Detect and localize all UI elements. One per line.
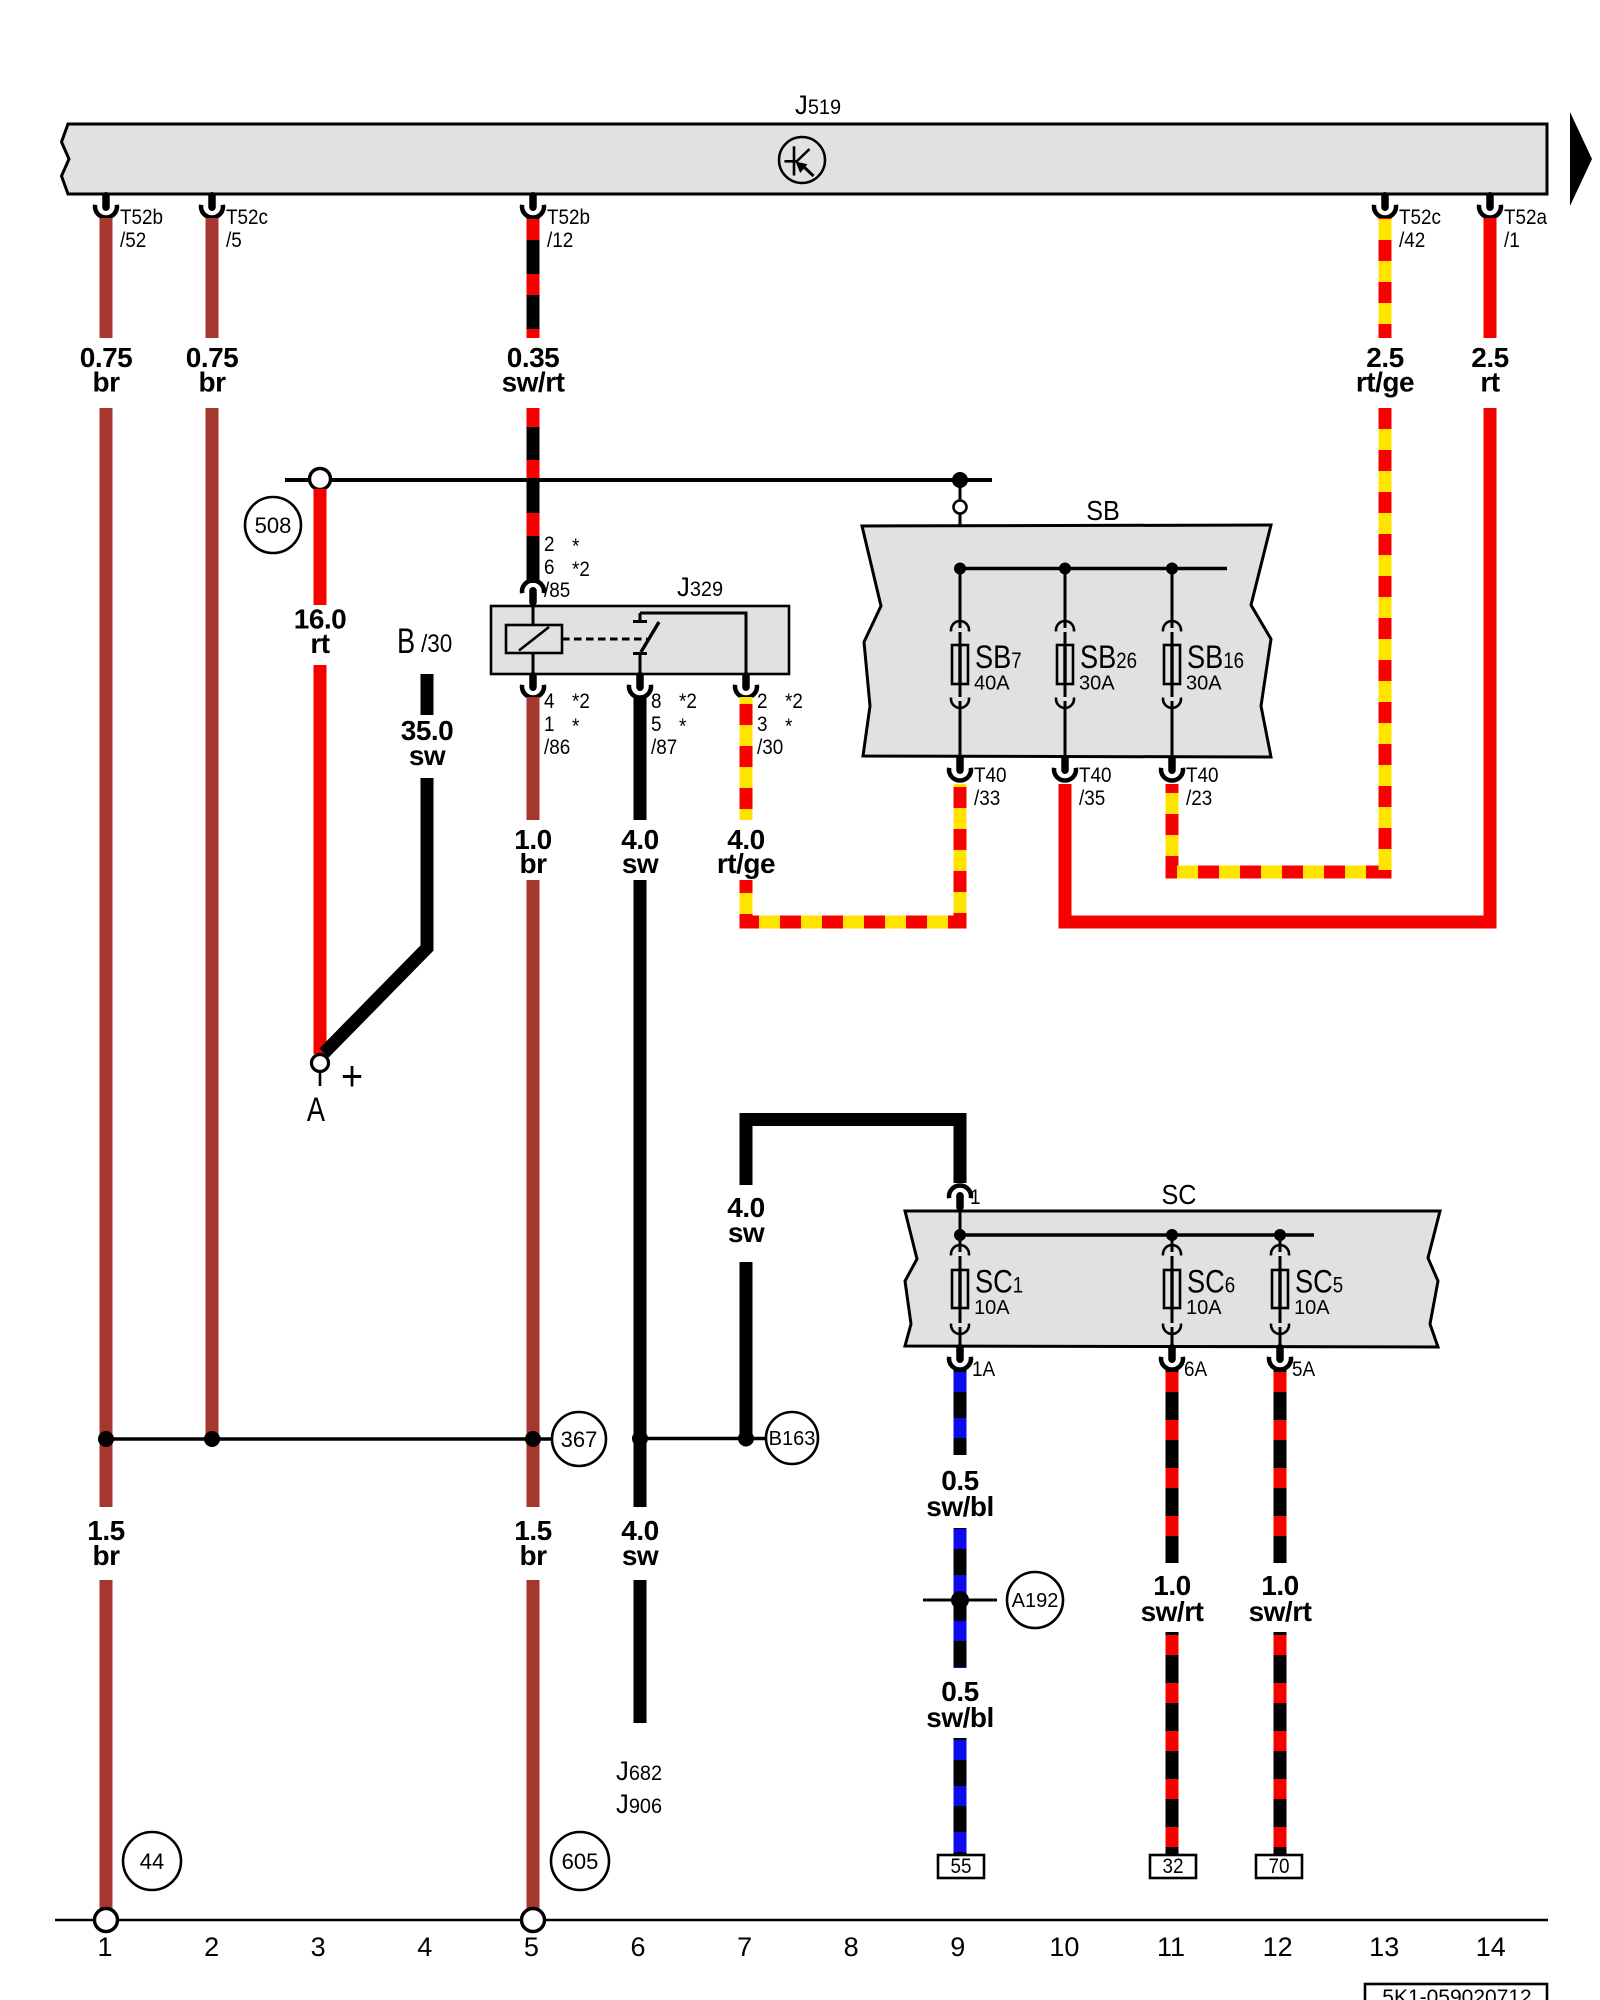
label 16.0 rt <box>294 604 347 660</box>
connector 5A under SC5 <box>1269 1344 1316 1381</box>
svg-text:8: 8 <box>651 690 662 713</box>
continuation arrow right of J519 <box>1570 112 1592 206</box>
svg-text:sw: sw <box>622 848 659 879</box>
wire 2.5 rt from T52a/1 (upper segment) <box>1484 218 1497 338</box>
junction A192 cross line <box>923 1599 997 1602</box>
svg-text:T52b: T52b <box>120 206 163 229</box>
wire 0.35 sw/rt lower segment to relay pin /85 <box>527 408 540 583</box>
svg-text:sw: sw <box>622 1540 659 1571</box>
svg-text:SB: SB <box>1086 495 1120 527</box>
svg-text:br: br <box>93 1540 121 1571</box>
junction dot SB bus at SB7 <box>954 563 966 575</box>
label 0.5 sw/bl (lower) <box>926 1676 994 1733</box>
svg-text:7: 7 <box>737 1932 752 1962</box>
label 2.5 rt <box>1471 342 1508 398</box>
relay coil <box>506 606 562 674</box>
label 1.0 sw/rt at x=1172 <box>1141 1570 1204 1627</box>
connector terminal T52c/42 on J519 <box>1374 192 1441 252</box>
svg-text:70: 70 <box>1268 1855 1289 1878</box>
svg-text:1: 1 <box>970 1186 981 1209</box>
svg-text:13: 13 <box>1369 1932 1399 1962</box>
svg-text:T40: T40 <box>974 764 1007 787</box>
svg-text:T52c: T52c <box>226 206 268 229</box>
connector 6A under SC6 <box>1161 1344 1208 1381</box>
junction dot above SB fuse box <box>952 472 968 488</box>
wire 4.0 sw U-link from junction B163 up and over to SC terminal 1 (upper part) <box>746 1120 960 1186</box>
fuse SC1 10A <box>951 1235 1023 1346</box>
svg-text:11: 11 <box>1157 1932 1185 1962</box>
contact box 70 <box>1256 1855 1302 1878</box>
svg-text:1: 1 <box>97 1932 112 1962</box>
fuse SB16 30A <box>1163 569 1244 758</box>
wire 0.5 sw/bl middle segment through A192 <box>954 1528 967 1668</box>
wire 1.0 sw/rt lower segment to contact 70 <box>1274 1632 1287 1855</box>
wire 4.0 rt/ge from relay /30 (upper segment) <box>740 697 753 820</box>
node open circle at start of 16.0 rt wire <box>310 469 331 490</box>
pin labels 4 *2 1 * /86 <box>544 690 590 759</box>
relay pin /86 connector <box>522 672 544 698</box>
svg-text:rt/ge: rt/ge <box>1356 367 1414 398</box>
wire 0.35 sw/rt from T52b/12 (upper segment) <box>527 218 540 338</box>
svg-text:2: 2 <box>757 690 768 713</box>
connection circle 44 <box>123 1832 181 1890</box>
svg-text:/12: /12 <box>547 229 573 252</box>
pin labels 2 * 6 *2 /85 <box>544 533 590 602</box>
wire 1.5 br lower segment to ground <box>527 1580 540 1912</box>
junction dot A192 <box>951 1591 969 1609</box>
small open connection circle above SB <box>954 501 967 514</box>
svg-text:367: 367 <box>561 1427 598 1452</box>
svg-text:30A: 30A <box>1186 673 1222 695</box>
svg-text:14: 14 <box>1476 1932 1506 1962</box>
svg-text:10A: 10A <box>1294 1297 1330 1319</box>
relay internal wire to pin /30 <box>640 613 746 674</box>
svg-text:6: 6 <box>630 1932 645 1962</box>
svg-text:32: 32 <box>1162 1855 1183 1878</box>
wire 1.0 br from relay /86 (upper segment) <box>527 697 540 820</box>
svg-text:br: br <box>520 848 548 879</box>
SB internal bus line <box>960 567 1227 570</box>
svg-text:/33: /33 <box>974 787 1000 810</box>
svg-text:10: 10 <box>1049 1932 1079 1962</box>
relay actuation dashed line <box>562 638 647 641</box>
svg-text:40A: 40A <box>974 673 1010 695</box>
svg-text:/30: /30 <box>757 736 783 759</box>
wire 0.5 sw/bl lower segment to contact 55 <box>954 1738 967 1855</box>
svg-text:12: 12 <box>1263 1932 1293 1962</box>
svg-text:*2: *2 <box>572 558 590 581</box>
svg-text:/5: /5 <box>226 229 242 252</box>
svg-text:T40: T40 <box>1186 764 1219 787</box>
svg-text:10A: 10A <box>1186 1297 1222 1319</box>
label J682 J906 <box>616 1755 662 1819</box>
label 35.0 sw <box>401 715 454 771</box>
terminal A (battery) with + sign <box>307 1053 363 1129</box>
relay J329 (terminal 15 voltage supply relay) box <box>491 571 789 674</box>
svg-text:*2: *2 <box>785 690 803 713</box>
connector T40/33 under SB7 <box>949 755 1007 810</box>
wire 0.75 br lower segment ending at junction line <box>206 408 219 1439</box>
junction line for connection B163 <box>640 1437 766 1440</box>
label 1.0 br <box>514 824 551 879</box>
label 1.5 br (under relay column) <box>514 1515 551 1571</box>
connection circle A192 <box>1007 1572 1063 1628</box>
connection circle 508 <box>245 497 301 553</box>
label 2.5 rt/ge <box>1356 342 1414 398</box>
junction line for connection 367 <box>106 1437 552 1440</box>
svg-text:5: 5 <box>524 1932 539 1962</box>
fuse SC5 10A <box>1271 1235 1343 1346</box>
svg-text:B163: B163 <box>769 1428 816 1450</box>
svg-text:5: 5 <box>651 713 662 736</box>
ground point circle at wire5 <box>522 1909 545 1932</box>
svg-text:*2: *2 <box>679 690 697 713</box>
svg-text:3: 3 <box>311 1932 326 1962</box>
label 0.75 br (second) <box>186 342 239 398</box>
svg-text:T40: T40 <box>1079 764 1112 787</box>
svg-text:T52b: T52b <box>547 206 590 229</box>
label 0.5 sw/bl (upper) <box>926 1465 994 1522</box>
svg-text:508: 508 <box>255 513 292 538</box>
svg-text:2: 2 <box>204 1932 219 1962</box>
contact box 55 <box>938 1855 984 1878</box>
svg-text:605: 605 <box>562 1849 599 1874</box>
track numbers 1-14 <box>97 1932 1505 1962</box>
junction dot SB bus at SB26 <box>1059 563 1071 575</box>
wire 2.5 rt lower segment to SB26 T40/35 <box>1065 408 1490 922</box>
junction dot SC bus at SC1 <box>954 1229 966 1241</box>
junction dot SB bus at SB16 <box>1166 563 1178 575</box>
wire 4.0 sw U-link lower segment to B163 junction <box>740 1262 753 1438</box>
svg-text:+: + <box>341 1053 363 1099</box>
relay switch contact <box>633 613 659 674</box>
svg-text:30A: 30A <box>1079 673 1115 695</box>
ground rail line <box>55 1919 1548 1922</box>
fuse box SC <box>905 1179 1440 1347</box>
svg-text:10A: 10A <box>974 1297 1010 1319</box>
svg-text:T52c: T52c <box>1399 206 1441 229</box>
svg-text:4: 4 <box>417 1932 432 1962</box>
svg-text:A192: A192 <box>1012 1590 1059 1612</box>
svg-text:6A: 6A <box>1184 1358 1208 1381</box>
svg-text:3: 3 <box>757 713 768 736</box>
diagnostic K-point symbol inside J519 <box>779 137 825 183</box>
svg-text:sw: sw <box>728 1217 765 1248</box>
relay pin /30 connector <box>735 672 757 698</box>
SC internal feed line from connector 1 <box>959 1206 962 1235</box>
fuse box SB <box>862 495 1271 757</box>
connector terminal T52c/5 on J519 <box>201 192 268 252</box>
label 0.75 br <box>80 342 133 398</box>
svg-text:4: 4 <box>544 690 555 713</box>
connection circle B163 <box>766 1412 818 1464</box>
label 4.0 sw (U-link) <box>727 1192 765 1248</box>
control unit J519 (onboard supply control unit) bus bar <box>62 89 1548 194</box>
wire 4.0 sw middle segment through junction B163 line <box>634 880 647 1507</box>
svg-text:*: * <box>785 715 793 738</box>
connector T40/23 under SB16 <box>1161 755 1219 810</box>
connection circle 605 <box>551 1832 609 1890</box>
svg-text:/23: /23 <box>1186 787 1212 810</box>
label 4.0 rt/ge <box>717 824 775 879</box>
junction dot at wire6 <box>632 1431 648 1447</box>
svg-text:/86: /86 <box>544 736 570 759</box>
fuse SB7 40A <box>951 569 1022 758</box>
label 0.35 sw/rt <box>502 342 565 398</box>
junction dot at wire2 end <box>204 1431 220 1447</box>
connection circle 367 <box>552 1412 606 1466</box>
wire 1.5 br lower segment to ground <box>100 1580 113 1912</box>
label 4.0 sw <box>621 824 659 879</box>
svg-text:SC: SC <box>1161 1179 1196 1211</box>
wire 2.5 rt/ge from T52c/42 (upper segment) <box>1379 218 1392 338</box>
diagram number box 5K1-059020712 <box>1365 1984 1547 2000</box>
relay pin /87 connector <box>629 672 651 698</box>
svg-text:/42: /42 <box>1399 229 1425 252</box>
connector terminal T52b/52 on J519 <box>95 192 163 252</box>
svg-text:8: 8 <box>844 1932 859 1962</box>
pin labels 2 *2 3 * /30 <box>757 690 803 759</box>
junction dot at U-link wire <box>738 1431 754 1447</box>
svg-text:br: br <box>93 367 121 398</box>
connector T40/35 under SB26 <box>1054 755 1112 810</box>
svg-text:6: 6 <box>544 556 555 579</box>
junction dot SC bus at SC5 <box>1274 1229 1286 1241</box>
svg-text:br: br <box>520 1540 548 1571</box>
svg-text:5K1-059020712: 5K1-059020712 <box>1382 1986 1531 2000</box>
svg-text:*2: *2 <box>572 690 590 713</box>
svg-text:9: 9 <box>950 1932 965 1962</box>
wire 1.0 sw/rt from SC fuse (upper segment) at x=1172 <box>1166 1370 1179 1563</box>
svg-text:/87: /87 <box>651 736 677 759</box>
wire 0.75/1.5 br middle segment to junction 367 line <box>100 408 113 1507</box>
svg-text:sw/rt: sw/rt <box>1141 1596 1204 1627</box>
wire: distribution node line (connection 508 to SB) <box>285 478 992 482</box>
wire 1.0 sw/rt lower segment to contact 32 <box>1166 1632 1179 1855</box>
label 4.0 sw (lower) <box>621 1515 659 1571</box>
svg-text:A: A <box>307 1090 326 1129</box>
wire 16.0 rt upper segment from node circle <box>314 489 327 605</box>
svg-text:br: br <box>199 367 227 398</box>
svg-text:rt: rt <box>310 628 329 659</box>
connector 1A under SC1 <box>949 1344 996 1381</box>
label B /30 (battery positive) <box>397 622 452 661</box>
svg-text:rt: rt <box>1480 367 1499 398</box>
connector terminal T52b/12 on J519 <box>522 192 590 252</box>
junction dot SC bus at SC6 <box>1166 1229 1178 1241</box>
label 1.0 sw/rt at x=1280 <box>1249 1570 1312 1627</box>
svg-text:sw/rt: sw/rt <box>1249 1596 1312 1627</box>
svg-text:B: B <box>397 622 415 661</box>
svg-text:sw/rt: sw/rt <box>502 367 565 398</box>
pin labels 8 *2 5 * /87 <box>651 690 697 759</box>
svg-text:/85: /85 <box>544 579 570 602</box>
svg-text:55: 55 <box>950 1855 971 1878</box>
wire 2.5 rt/ge lower segment to SB16 T40/23 <box>1172 408 1385 872</box>
wire 16.0 rt lower segment to battery terminal A <box>314 665 327 1054</box>
svg-text:*: * <box>572 535 580 558</box>
svg-text:1: 1 <box>544 713 555 736</box>
connector 1 on SC box top <box>949 1185 981 1211</box>
svg-text:/35: /35 <box>1079 787 1105 810</box>
svg-text:1A: 1A <box>972 1358 996 1381</box>
svg-text:rt/ge: rt/ge <box>717 848 775 879</box>
wire 35.0 sw lower segment with bend to terminal A <box>324 778 427 1053</box>
wire 0.75 br from T52b/52 (upper segment) <box>100 218 113 338</box>
svg-text:/30: /30 <box>421 630 452 658</box>
SC internal bus line <box>960 1233 1314 1236</box>
svg-text:sw/bl: sw/bl <box>926 1702 994 1733</box>
ground point circle at wire1 <box>95 1909 118 1932</box>
wire into SB box top <box>959 480 962 568</box>
svg-text:2: 2 <box>544 533 555 556</box>
wire 4.0 sw lower segment to J682/J906 <box>634 1580 647 1723</box>
svg-text:sw: sw <box>409 740 446 771</box>
svg-text:/52: /52 <box>120 229 146 252</box>
svg-text:*: * <box>679 715 687 738</box>
svg-text:44: 44 <box>140 1849 164 1874</box>
label 1.5 br (left) <box>87 1515 124 1571</box>
svg-text:/1: /1 <box>1504 229 1520 252</box>
connector terminal T52a/1 on J519 <box>1479 192 1548 252</box>
fuse SB26 30A <box>1056 569 1137 758</box>
wire 1.0/1.5 br middle segment to junction 367 <box>527 880 540 1507</box>
wire 0.5 sw/bl from SC1 1A (upper segment) <box>954 1370 967 1455</box>
svg-text:sw/bl: sw/bl <box>926 1491 994 1522</box>
junction dot at wire5 <box>525 1431 541 1447</box>
wire 0.75 br from T52c/5 (upper segment) <box>206 218 219 338</box>
wire 35.0 sw upper segment below B <box>421 674 434 715</box>
fuse SC6 10A <box>1163 1235 1235 1346</box>
relay pin /85 connector <box>522 580 544 606</box>
junction dot at wire1 <box>98 1431 114 1447</box>
wire 4.0 rt/ge lower segment to SB7 T40/33 <box>746 784 960 922</box>
svg-text:*: * <box>572 715 580 738</box>
contact box 32 <box>1150 1855 1196 1878</box>
wire 1.0 sw/rt from SC fuse (upper segment) at x=1280 <box>1274 1370 1287 1563</box>
wire 4.0 sw from relay /87 (upper segment) <box>634 697 647 820</box>
svg-text:T52a: T52a <box>1504 206 1548 229</box>
svg-text:5A: 5A <box>1292 1358 1316 1381</box>
